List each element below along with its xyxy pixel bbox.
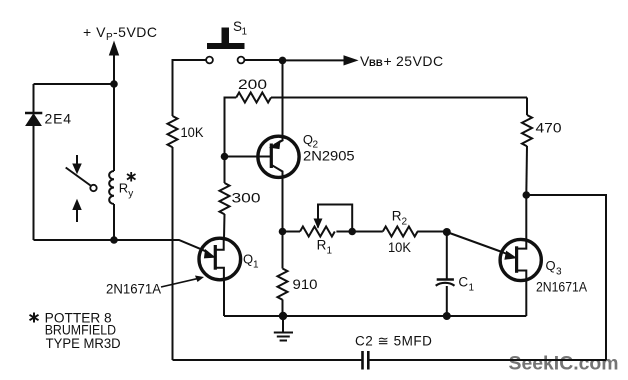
svg-text:+: + [384,53,392,69]
svg-text:-5VDC: -5VDC [113,24,158,40]
svg-text:C: C [458,275,468,290]
wire right edge over watermark [605,195,607,360]
label R1 [317,238,333,257]
svg-text:300: 300 [232,191,261,206]
label Q3 [546,258,563,278]
resistor 470 [522,98,532,196]
wire VBB node down to Q2 emitter [282,60,284,141]
wire Q1 base1 down to rail [223,280,225,316]
svg-text:R: R [392,209,402,224]
svg-text:1: 1 [242,27,248,38]
node VBB junction [279,57,287,65]
svg-text:2E4: 2E4 [45,111,72,127]
label VBB +25VDC [360,53,444,69]
svg-text:Q: Q [243,252,253,267]
wire S1 right contact to VBB node [245,59,283,61]
svg-text:+ V: + V [83,24,106,40]
svg-text:TYPE MR3D: TYPE MR3D [46,336,121,351]
wire outer bottom rail right [369,359,607,361]
R1 wiper loop [314,205,352,232]
svg-text:470: 470 [536,121,562,136]
node ground junction [279,312,287,320]
wire Q2 collector down [282,178,284,232]
wire inner bottom rail [224,315,526,317]
node Ry bottom [110,236,118,244]
wire junction to Q3 emitter [447,232,502,252]
relay coil Ry [109,171,114,204]
svg-text:2N1671A: 2N1671A [106,282,161,297]
wire Q3 top to 470 [525,195,527,240]
contact actuation arrow up [73,200,81,222]
label R2 [392,209,408,228]
svg-text:Q: Q [303,132,313,147]
label Q1 [243,252,259,271]
svg-text:C2 ≅ 5MFD: C2 ≅ 5MFD [355,334,432,349]
node Q2 base junction [221,153,229,161]
svg-text:1: 1 [253,260,259,271]
resistor 10K [168,116,178,147]
svg-text:2: 2 [402,217,408,228]
contact actuation arrow down [73,155,81,173]
node R1 junction [279,228,287,236]
asterisk by Ry [127,172,136,182]
svg-text:2N2905: 2N2905 [303,149,355,164]
capacitor C1 [436,232,455,316]
transistor Q2 2N2905 [258,136,299,177]
wire base junction to Q2 [225,156,271,158]
wire Vp to relay coil [113,84,115,171]
wire left vertical [33,84,35,240]
asterisk footnote [30,313,39,323]
wire Q3 bottom to rail [525,281,527,317]
svg-text:1: 1 [469,283,475,294]
svg-text:Q: Q [546,258,556,273]
node R1 wiper junction [348,228,356,236]
wire right branch [526,195,606,360]
diode 2E4 [25,113,42,126]
svg-text:200: 200 [238,77,267,92]
resistor 200 [225,93,283,157]
node C1 bottom junction [443,312,451,320]
svg-text:3: 3 [556,267,562,278]
transistor Q1 2N1671A (UJT) [199,238,241,280]
switch S1 button [207,28,245,50]
wire top-left horizontal [34,83,115,85]
svg-text:BB: BB [369,58,383,69]
wire top inner horizontal to 470 [283,97,528,99]
node 470 bottom junction [523,191,531,199]
svg-text:2N1671A: 2N1671A [536,280,587,295]
ground [274,316,293,341]
resistor 910 [278,232,288,317]
svg-text:10K: 10K [388,240,411,255]
potentiometer R1 [283,227,383,237]
wire outer bottom rail left [173,359,363,361]
label 2N1671A with arrow [106,276,204,297]
wire Q1 emitter rail [34,240,203,250]
Vp supply arrow [110,42,119,84]
svg-text:1: 1 [327,246,333,257]
wire S1 left branch [173,60,207,116]
svg-text:y: y [128,189,133,200]
label Ry [119,181,134,200]
relay contact blade [66,168,97,192]
wire bottom rail over watermark [490,359,606,361]
svg-text:910: 910 [293,277,318,292]
wire coil to emitter rail [113,204,115,240]
label POTTER & BRUMFIELD TYPE MR3D [45,310,121,351]
svg-text:R: R [317,238,327,253]
node C1 top junction [443,228,451,236]
wire 10K down to bottom rail [172,147,174,360]
label S1 [233,19,248,38]
resistor 300 [220,157,230,239]
label Q2 [303,132,319,151]
svg-text:25VDC: 25VDC [396,53,444,69]
svg-text:10K: 10K [181,125,204,140]
node junction Vp [110,80,118,88]
svg-text:R: R [119,181,128,196]
label +Vp-5VDC [83,24,158,43]
resistor R2 10K [383,227,418,237]
switch S1 contacts [206,57,244,64]
label C1 [458,275,474,294]
capacitor C2 [363,351,369,370]
transistor Q3 2N1671A (UJT) [500,239,541,280]
svg-text:SeekIC.com: SeekIC.com [509,353,619,375]
VBB arrow [283,56,358,65]
